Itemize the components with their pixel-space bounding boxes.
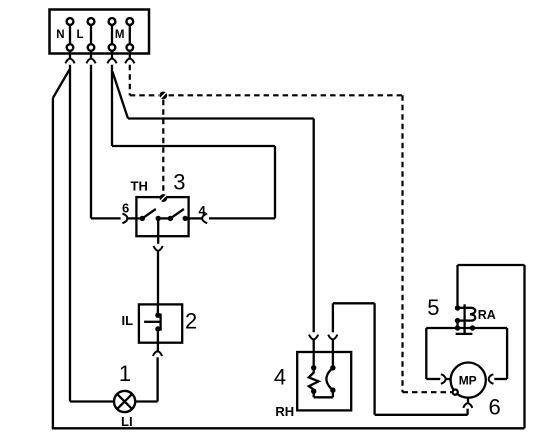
svg-text:5: 5: [427, 295, 439, 320]
dashed wire M pin down: [129, 65, 131, 96]
RA top bar: [458, 307, 472, 309]
wire terminal3 corner right: [112, 145, 275, 147]
lamp cross stroke 1: [117, 394, 132, 409]
terminal block housing: [50, 10, 150, 54]
heater RH box: [297, 352, 351, 410]
wire right border vertical: [523, 265, 525, 428]
svg-text:M: M: [115, 29, 125, 41]
RA mid node dot: [455, 318, 460, 323]
terminal N pin: [67, 18, 74, 58]
RA mid stub down: [456, 321, 458, 328]
wire RH left socket into box: [313, 340, 315, 368]
wire bottom border: [52, 427, 525, 429]
wire RA to MP right vertical: [506, 328, 508, 379]
door switch IL box: [139, 304, 182, 342]
connector socket TH bottom: [154, 246, 163, 251]
terminal M pin: [126, 18, 133, 58]
svg-text:TH: TH: [131, 179, 148, 194]
RH bottom link right stub: [332, 390, 334, 397]
wire MP bottom to corner: [466, 409, 468, 415]
wire left border vertical: [52, 98, 54, 428]
wire terminal3 pin down: [111, 65, 113, 146]
RA contact dot left: [455, 325, 460, 330]
wire top of right loop to RA: [458, 264, 525, 266]
wire TH common down: [157, 218, 159, 243]
wire lamp left horizontal: [70, 400, 114, 402]
connector socket below IL: [153, 351, 162, 356]
svg-text:3: 3: [173, 170, 185, 195]
MP sensor terminal circle: [453, 390, 458, 395]
RA contact line: [426, 327, 507, 329]
lamp LI: [114, 391, 135, 412]
wire socket to MP body: [446, 378, 451, 380]
svg-text:6: 6: [489, 394, 501, 419]
connector socket RH right: [328, 335, 337, 340]
svg-text:6: 6: [122, 201, 129, 216]
wire lamp right horizontal: [135, 400, 157, 402]
wire terminal3 diagonal branch: [112, 72, 128, 119]
connector socket TH 4: [202, 214, 207, 224]
TH common contact dot: [156, 216, 161, 221]
wire MP bottom horizontal: [375, 414, 468, 416]
TH switch blade 4: [170, 209, 184, 218]
RH heater zigzag: [309, 368, 319, 391]
RH left element dot bottom: [311, 389, 316, 394]
dashed wire right drop vertical: [401, 95, 403, 392]
wire TH box to socket 4: [187, 217, 203, 219]
dashed wire M to junction: [130, 94, 159, 96]
terminal L pin: [88, 18, 95, 58]
wire MP left stub: [426, 378, 440, 380]
svg-text:MP: MP: [459, 373, 477, 387]
svg-text:RA: RA: [478, 308, 496, 322]
wire IL to lamp corner: [156, 357, 158, 401]
wire to TH contact 4: [209, 217, 275, 219]
wire heater feed horizontal: [128, 117, 314, 119]
RH left element dot top: [311, 365, 316, 370]
IL wire out of box: [157, 329, 159, 353]
connector socket MP left: [441, 374, 446, 384]
wire N pin down to lamp row: [69, 65, 71, 402]
IL actuator rod: [144, 321, 159, 323]
IL moving bridge: [159, 314, 161, 331]
MP bottom pin: [467, 398, 469, 404]
dashed wire junction to TH actuator: [162, 100, 164, 193]
TH wire common to second pivot: [158, 217, 170, 219]
wire down to TH 4 level: [274, 146, 276, 218]
svg-text:L: L: [77, 29, 84, 41]
IL wire into box: [157, 304, 159, 315]
svg-text:4: 4: [274, 365, 286, 390]
wire socket to TH box: [127, 217, 142, 219]
thermostat TH box: [136, 197, 188, 236]
wire N diagonal branch to left border: [53, 70, 70, 99]
lamp cross stroke 2: [117, 394, 132, 409]
connector socket terminal M: [125, 58, 134, 63]
wire heater feed vertical: [313, 119, 315, 333]
relay RA feed from loop: [456, 265, 458, 309]
RA mid bar: [458, 319, 472, 321]
TH switch blade 6: [142, 209, 156, 218]
connector socket TH 6: [122, 214, 127, 224]
RH bottom link bar: [314, 396, 333, 398]
connector socket terminal N: [65, 58, 74, 63]
svg-text:1: 1: [119, 361, 131, 386]
connector socket terminal L: [86, 58, 95, 63]
TH right contact dot: [183, 216, 188, 221]
RH bottom link left stub: [313, 391, 315, 397]
svg-text:4: 4: [199, 203, 207, 218]
RH right element dot bottom: [330, 388, 335, 393]
TH actuator terminal circle: [160, 194, 168, 202]
svg-text:IL: IL: [122, 313, 134, 328]
wire RH-MP vertical: [373, 303, 375, 415]
wire RH right socket into box: [332, 340, 334, 368]
RA core bar: [456, 333, 473, 335]
connector socket terminal 3: [107, 58, 116, 63]
dashed wire to MP sensor: [403, 391, 452, 393]
svg-text:N: N: [56, 29, 64, 41]
RA contact dot right: [470, 325, 475, 330]
connector socket MP bottom: [463, 403, 472, 408]
wire RH right loop top: [333, 302, 375, 304]
RA coil: [470, 308, 475, 321]
RH bypass curve: [326, 368, 333, 390]
svg-text:2: 2: [185, 309, 197, 334]
RH right element dot top: [330, 365, 335, 370]
wire MP right stub: [494, 378, 507, 380]
wire RA to MP left vertical: [425, 328, 427, 379]
RH right feed vertical from MP loop: [332, 303, 334, 332]
junction node circle: [159, 92, 167, 100]
connector socket RH left: [309, 335, 318, 340]
TH second pivot dot: [168, 216, 173, 221]
wire L pin down: [90, 65, 92, 219]
dashed wire junction to right drop: [169, 94, 403, 96]
RA top node dot: [455, 305, 460, 310]
IL upper contact dot: [155, 313, 160, 318]
TH right contact to box edge: [185, 217, 188, 219]
connector socket MP right: [489, 374, 494, 384]
terminal 3rd pin: [109, 18, 116, 58]
TH internal wire left contact: [140, 216, 145, 221]
wire L corner to TH contact 6: [91, 217, 121, 219]
IL lower contact dot: [155, 326, 160, 331]
svg-text:LI: LI: [121, 414, 133, 429]
svg-text:RH: RH: [275, 404, 294, 419]
wire to IL top: [157, 251, 159, 305]
motor MP body: [451, 363, 486, 398]
RA armature vertical: [463, 304, 465, 334]
